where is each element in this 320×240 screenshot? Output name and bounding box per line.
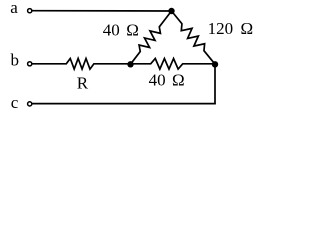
terminal a [28,9,32,13]
svg-text:a: a [10,0,18,17]
svg-text:b: b [11,51,20,70]
wire c terminal to right vertical [32,103,216,105]
resistor 40 ohm (horizontal middle) [131,59,216,70]
svg-text:c: c [11,93,19,112]
circuit schematic: delta network with terminals a,b,c [0,0,258,121]
node junction top [168,8,174,14]
resistor 120 ohm (right diagonal) [172,11,216,64]
svg-text:120 Ω: 120 Ω [208,19,254,38]
resistor 40 ohm (left diagonal) [131,11,172,64]
node junction right [212,61,218,67]
node junction middle [127,61,133,67]
terminal c [28,102,32,106]
svg-text:40 Ω: 40 Ω [103,21,139,40]
wire right vertical [214,64,216,103]
resistor R on wire b [32,59,131,70]
wire a terminal to top node [32,10,172,12]
svg-text:40 Ω: 40 Ω [149,71,185,90]
terminal b [28,62,32,66]
svg-text:R: R [77,74,89,93]
